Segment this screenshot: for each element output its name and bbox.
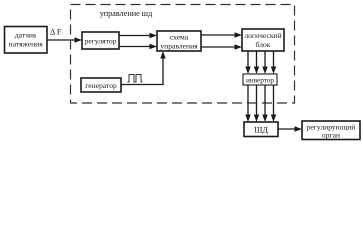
node label Δ F <box>50 28 62 37</box>
wire регулятор → схема управления (upper) <box>119 33 157 38</box>
wire ШД → регулирующий орган <box>278 126 302 131</box>
block ШД <box>244 122 278 137</box>
svg-text:управления: управления <box>160 42 198 51</box>
svg-text:натяжения: натяжения <box>9 40 44 49</box>
svg-text:Δ F: Δ F <box>50 28 62 37</box>
wire инвертор → ШД line 3 <box>262 85 267 122</box>
wire логический блок → инвертор line 3 <box>262 51 267 74</box>
svg-text:управление шд: управление шд <box>100 9 153 18</box>
wire инвертор → ШД line 4 <box>271 85 276 122</box>
block логический блок <box>242 29 284 51</box>
dashed enclosure управление ШД <box>71 5 295 104</box>
svg-text:блок: блок <box>256 40 271 49</box>
svg-text:регулятор: регулятор <box>85 37 117 46</box>
wire инвертор → ШД line 2 <box>254 85 259 122</box>
svg-text:ШД: ШД <box>254 126 268 135</box>
wire датчик → регулятор with arrow <box>47 37 82 42</box>
svg-text:датчик: датчик <box>15 31 37 40</box>
svg-text:инвертор: инвертор <box>246 77 274 85</box>
wire схема → логический блок (upper) <box>201 32 242 37</box>
label управление шд <box>100 9 153 18</box>
wire логический блок → инвертор line 2 <box>254 51 259 74</box>
wire логический блок → инвертор line 1 <box>245 51 250 74</box>
svg-text:схема: схема <box>170 33 189 42</box>
svg-text:орган: орган <box>322 131 340 140</box>
block генератор <box>81 78 121 92</box>
block датчик натяжения <box>5 27 48 54</box>
wire схема → логический блок (lower) <box>201 44 242 49</box>
wire логический блок → инвертор line 4 <box>271 51 276 74</box>
block регулятор <box>82 32 119 49</box>
wire инвертор → ШД line 1 <box>245 85 250 122</box>
wire регулятор → схема управления (lower) <box>119 44 157 49</box>
pulse waveform symbol <box>128 75 143 83</box>
block регулирующий орган <box>302 121 360 140</box>
block схема управления <box>157 31 201 51</box>
svg-text:генератор: генератор <box>85 81 117 90</box>
block инвертор <box>243 74 277 85</box>
svg-text:логический: логический <box>244 31 281 40</box>
wire генератор → схема управления (via corner) <box>121 51 166 85</box>
